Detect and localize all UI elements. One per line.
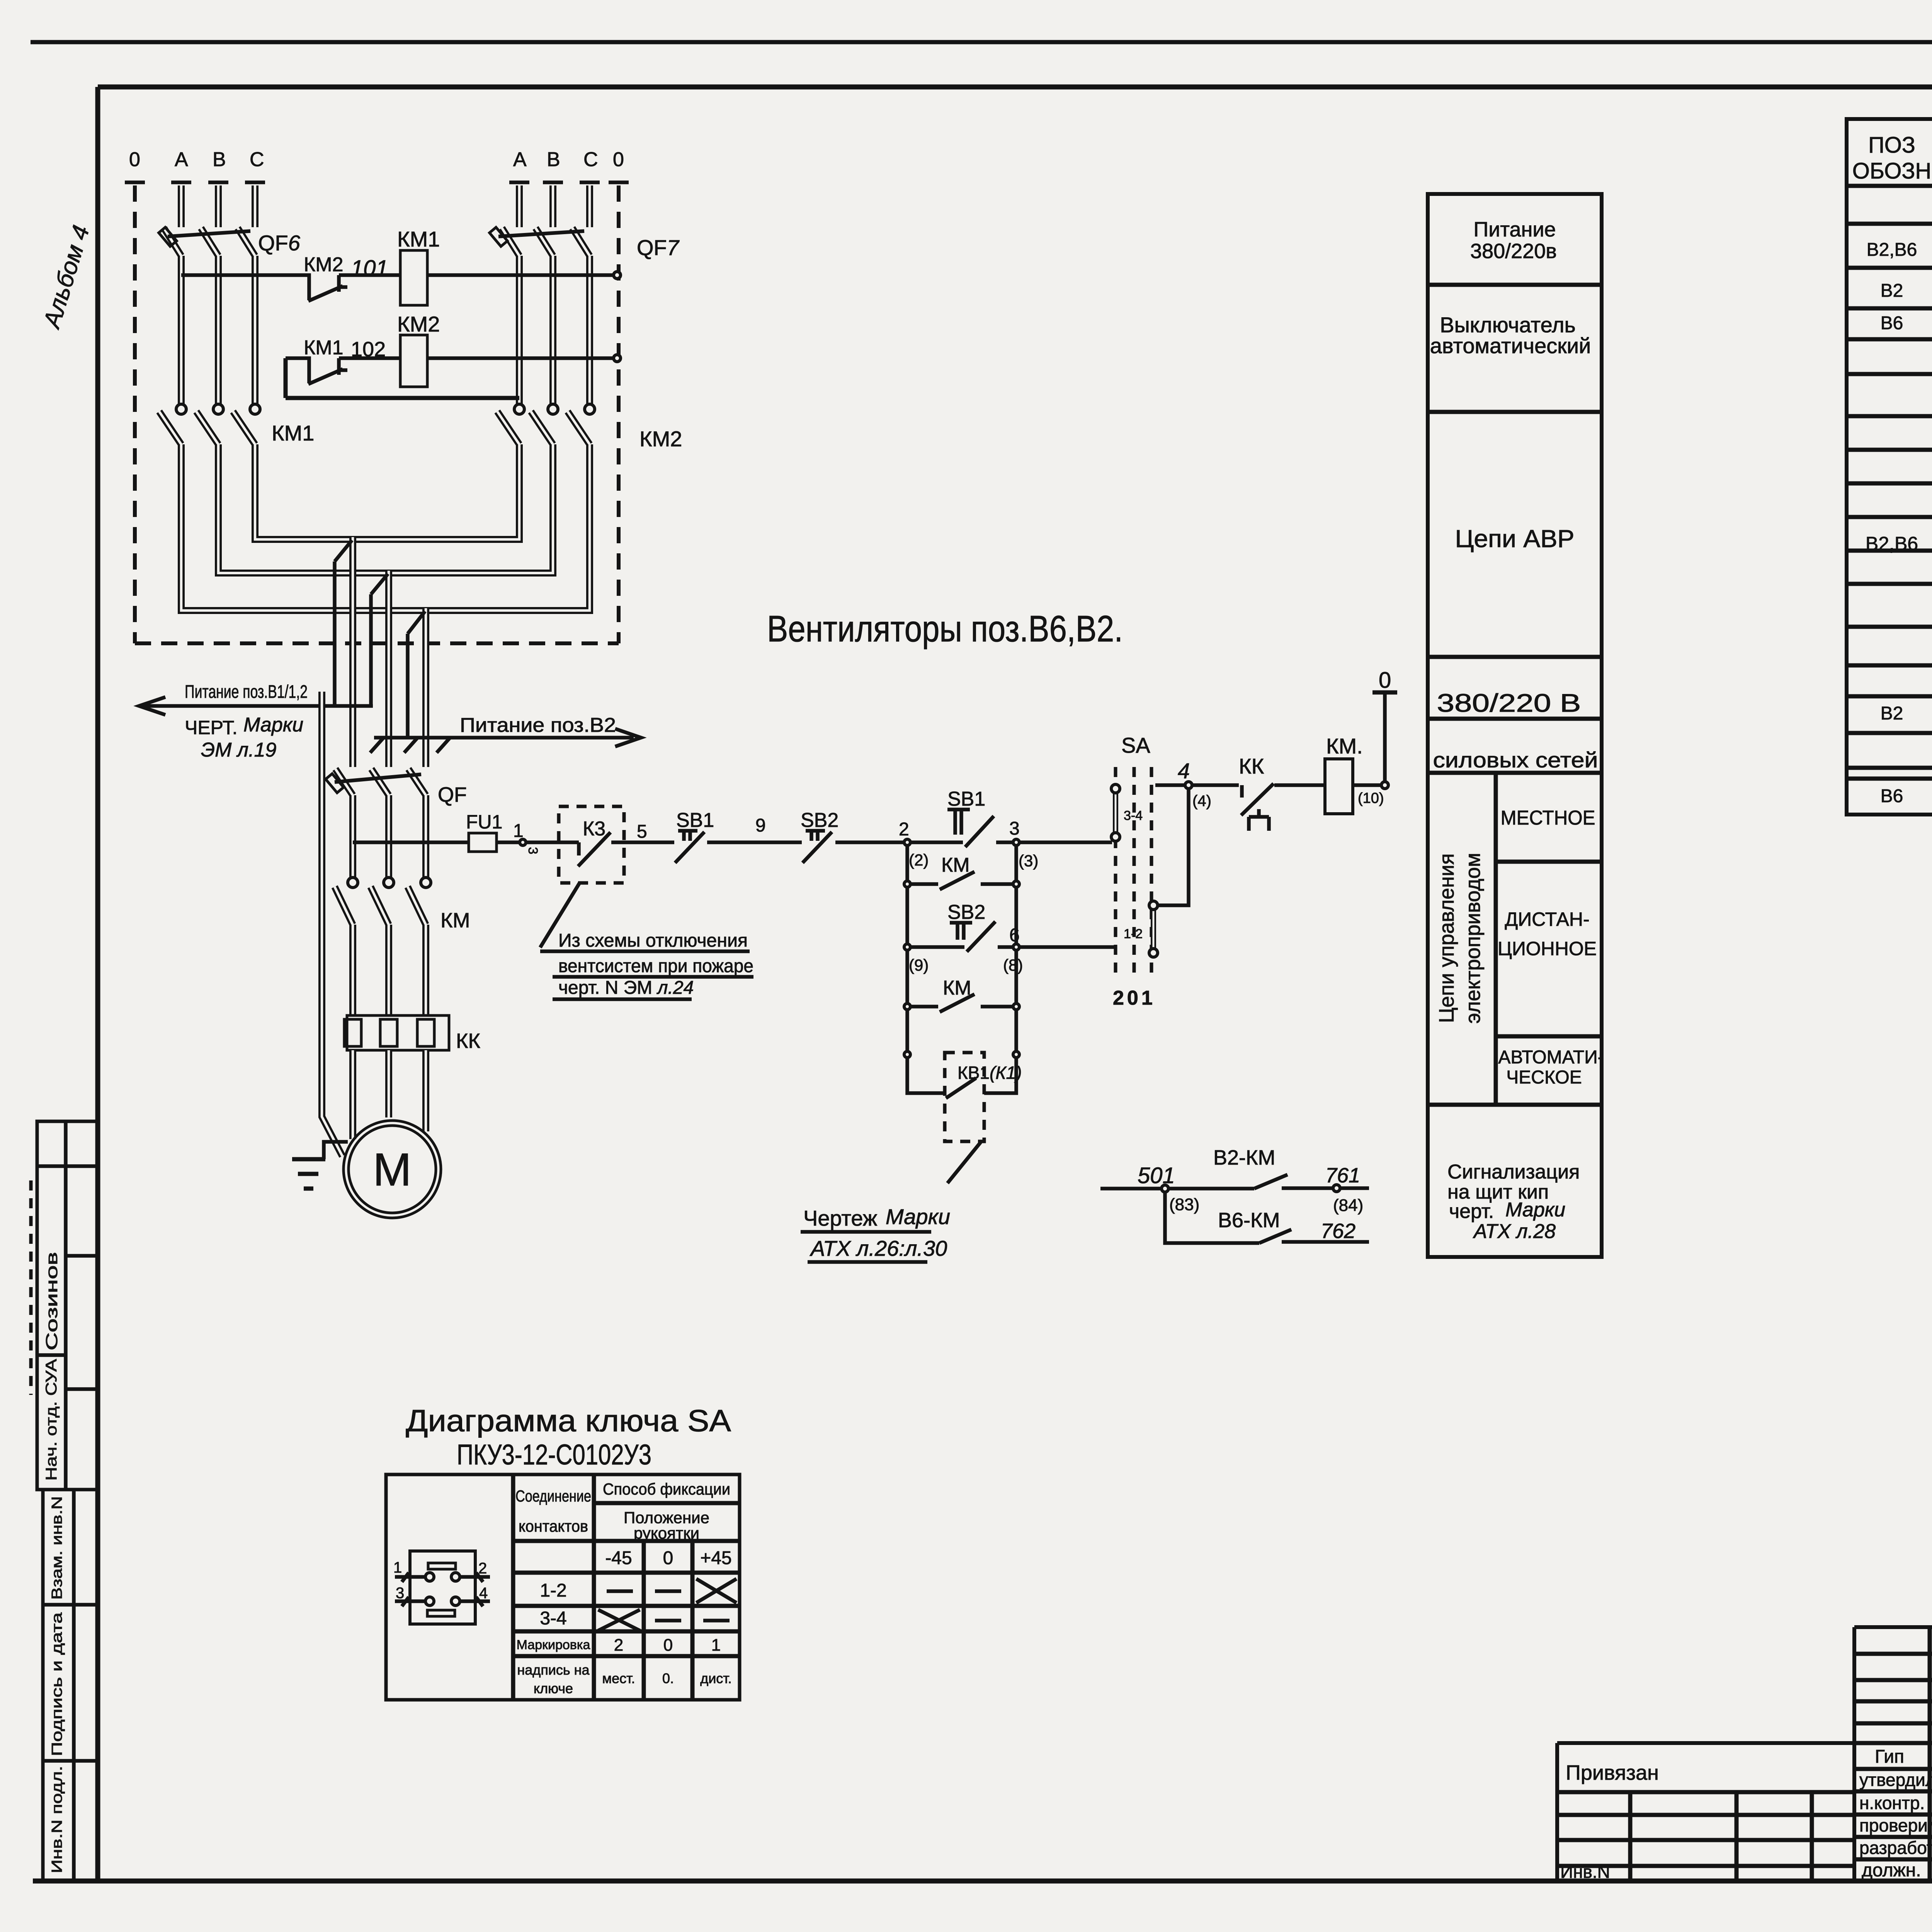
contactor KM1 fixed contacts: [176, 404, 186, 414]
tap slash to feeder B1: [335, 540, 352, 561]
breaker QF blades: [335, 769, 426, 795]
circuit breaker QF7 blades: [502, 228, 590, 256]
thermal relay KK outer box: [347, 1015, 449, 1050]
svg-text:Марки: Марки: [243, 714, 303, 736]
svg-text:4: 4: [1178, 759, 1190, 783]
contactor KM fixed contacts: [348, 878, 358, 888]
svg-text:QF6: QF6: [258, 231, 301, 255]
svg-text:рукоятки: рукоятки: [634, 1524, 699, 1542]
svg-text:3: 3: [526, 847, 540, 854]
signal row wire 501: [1100, 1187, 1162, 1190]
svg-text:761: 761: [1325, 1164, 1360, 1187]
QF7 pole wires down to KM2: [519, 256, 590, 404]
column row lines: [1428, 285, 1602, 1105]
key switch drawing cell: [410, 1551, 475, 1624]
svg-text:4: 4: [479, 1585, 488, 1602]
svg-text:201: 201: [1113, 987, 1156, 1009]
ground lead: [324, 1142, 348, 1159]
SA contact 3-4 bar: [1113, 793, 1118, 833]
tap wire to feeder B2: [406, 634, 410, 738]
wires KM to KK: [353, 925, 426, 1015]
svg-text:В: В: [213, 148, 226, 171]
second KM aux branch: [907, 950, 1016, 1003]
svg-text:0: 0: [663, 1548, 673, 1568]
svg-text:Питание: Питание: [1473, 218, 1556, 241]
svg-text:Привязан: Привязан: [1566, 1761, 1659, 1784]
K3 contact: [559, 832, 624, 866]
svg-text:(4): (4): [1192, 793, 1211, 810]
svg-text:М: М: [373, 1144, 412, 1196]
svg-text:разработ: разработ: [1859, 1838, 1932, 1858]
QF crossbar: [335, 774, 421, 782]
svg-text:3: 3: [396, 1585, 404, 1602]
node 6: [1013, 944, 1019, 950]
wire SA to node 4: [1155, 783, 1239, 787]
svg-text:МЕСТНОЕ: МЕСТНОЕ: [1501, 807, 1595, 829]
terminal bars A B C right: [519, 185, 590, 227]
svg-text:КМ: КМ: [943, 977, 971, 999]
feeder bus wire phase C down: [422, 608, 429, 767]
tap wire 2 to feeder B1: [369, 594, 373, 706]
wire node6 to SA: [1019, 945, 1116, 949]
node on QF7 zero bus row 101: [614, 272, 621, 279]
interlock row 102 wire: [286, 358, 614, 384]
svg-text:АВТОМАТИ-: АВТОМАТИ-: [1498, 1047, 1604, 1068]
svg-text:ПОЗ: ПОЗ: [1868, 133, 1915, 158]
SA contact 3-4 terminals: [1111, 784, 1120, 793]
SA dashed line 3: [1150, 767, 1153, 980]
wire FU1 to node 1: [497, 840, 520, 844]
svg-text:(2): (2): [909, 851, 929, 869]
node 1: [520, 839, 526, 845]
key contact 2: [451, 1573, 460, 1581]
svg-text:мест.: мест.: [602, 1670, 635, 1686]
merge bus run A: [181, 444, 590, 611]
svg-text:Созинов: Созинов: [43, 1252, 61, 1350]
svg-text:Подпись и дата: Подпись и дата: [49, 1612, 65, 1756]
svg-text:В2-КМ: В2-КМ: [1213, 1146, 1275, 1169]
wire node3 to SA: [1019, 840, 1112, 844]
svg-text:контактов: контактов: [519, 1517, 588, 1535]
BOM horizontal lines: [1847, 186, 1932, 779]
svg-text:Инв.N: Инв.N: [1560, 1862, 1610, 1882]
SA contact 1-2 bar: [1151, 909, 1156, 949]
node 4: [1185, 782, 1192, 789]
svg-text:762: 762: [1321, 1219, 1355, 1243]
circuit breaker QF6 blades: [164, 228, 255, 256]
svg-text:SA: SA: [1121, 733, 1150, 757]
contact B6-KM: [1259, 1230, 1291, 1243]
row 102 left feed stub: [286, 358, 519, 398]
node on wire 761: [1333, 1185, 1340, 1192]
svg-text:1-2: 1-2: [540, 1580, 566, 1601]
svg-text:2: 2: [614, 1636, 623, 1655]
svg-text:501: 501: [1138, 1163, 1175, 1188]
arrowhead poz.B2: [615, 729, 641, 747]
svg-text:(10): (10): [1358, 790, 1384, 806]
function column table frame: [1428, 194, 1602, 1257]
svg-text:А: А: [175, 148, 188, 171]
leader from KB1 box: [947, 1142, 981, 1183]
relay K3 dashed box: [559, 806, 624, 883]
feeder line poz.B2: [374, 736, 634, 740]
svg-text:В2: В2: [1881, 281, 1903, 301]
dashed enclosure bottom: [135, 641, 619, 645]
svg-text:2: 2: [478, 1560, 487, 1577]
SA diagram table frame: [386, 1475, 740, 1700]
contactor KM2 fixed contacts: [514, 404, 524, 414]
key contact 3: [425, 1597, 434, 1605]
feeder line poz.B1/1,2: [139, 704, 373, 708]
svg-text:1: 1: [711, 1636, 721, 1655]
svg-text:ПКУ3-12-С0102У3: ПКУ3-12-С0102У3: [457, 1439, 651, 1471]
svg-text:В2,В6: В2,В6: [1867, 240, 1917, 260]
fold mark dashes: [29, 1180, 33, 1395]
node 2b: [904, 944, 910, 950]
svg-text:ОБОЗН: ОБОЗН: [1852, 158, 1932, 184]
svg-text:КМ1: КМ1: [304, 337, 344, 359]
svg-text:В: В: [547, 148, 560, 171]
svg-text:102: 102: [351, 338, 386, 361]
svg-text:3-4: 3-4: [540, 1608, 566, 1629]
svg-text:Питание поз.В2: Питание поз.В2: [460, 714, 616, 736]
svg-text:вентсистем при пожаре: вентсистем при пожаре: [558, 956, 753, 976]
svg-text:автоматический: автоматический: [1430, 333, 1591, 358]
feeder bus wire phase B down: [385, 571, 392, 767]
left stamp upper block: [37, 1121, 98, 1490]
feeder bus wire phase A down: [349, 537, 356, 767]
svg-text:Сигнализация: Сигнализация: [1447, 1161, 1580, 1183]
svg-text:С: С: [583, 148, 598, 171]
svg-text:380/220в: 380/220в: [1470, 240, 1557, 263]
svg-text:Из схемы отключения: Из схемы отключения: [558, 930, 748, 951]
svg-text:проверил: проверил: [1859, 1815, 1932, 1835]
svg-text:Марки: Марки: [886, 1204, 950, 1229]
svg-text:(84): (84): [1333, 1196, 1363, 1215]
tap slash to feeder B2: [408, 611, 425, 634]
svg-text:1: 1: [393, 1559, 402, 1576]
QF7 crossbar: [498, 231, 584, 236]
terminal bars A B C left: [181, 185, 255, 227]
svg-text:Цепи АВР: Цепи АВР: [1455, 525, 1575, 553]
svg-text:ЭМ л.19: ЭМ л.19: [201, 739, 276, 761]
svg-text:ключе: ключе: [534, 1680, 573, 1696]
QF7 flag: [490, 227, 507, 246]
wire coil to zero: [1353, 783, 1382, 787]
key handle top bar: [428, 1563, 456, 1569]
KK release hook: [1249, 809, 1269, 831]
svg-text:Питание поз.В1/1,2: Питание поз.В1/1,2: [185, 681, 308, 702]
motor M circle: [344, 1121, 441, 1218]
contactor coil KM: [1325, 759, 1353, 814]
svg-text:(3): (3): [1019, 852, 1038, 870]
svg-text:КВ1(К1): КВ1(К1): [957, 1063, 1022, 1083]
svg-text:0: 0: [129, 148, 140, 171]
svg-text:черт. N ЭМ л.24: черт. N ЭМ л.24: [558, 978, 694, 998]
svg-text:(8): (8): [1003, 956, 1023, 974]
branch down to KB row: [907, 1010, 1016, 1051]
svg-text:0.: 0.: [662, 1670, 674, 1686]
svg-text:В2,В6: В2,В6: [1866, 533, 1918, 554]
junction slash B2 line c: [437, 738, 450, 753]
contactor coil KM1: [400, 250, 427, 305]
terminal caps: [125, 180, 629, 184]
left stamp lower block: [43, 1490, 98, 1881]
svg-text:5: 5: [637, 821, 647, 842]
signal branch wire down: [1165, 1192, 1259, 1243]
contactor KM blades: [335, 887, 426, 925]
zero terminal bar: [1372, 690, 1397, 695]
neutral wire to motor: [322, 692, 342, 1156]
svg-text:Инв.N подл.: Инв.N подл.: [49, 1766, 65, 1873]
arrowhead poz.B1: [139, 697, 165, 715]
svg-text:QF7: QF7: [637, 235, 680, 260]
svg-text:А: А: [513, 148, 527, 171]
tap slash 2 to feeder B1: [371, 574, 388, 594]
KM aux contact seal-in: [910, 872, 1013, 889]
svg-text:КМ2: КМ2: [304, 253, 344, 276]
dashed enclosure right side (0 bus): [617, 185, 621, 643]
QF6 flag: [159, 227, 177, 246]
svg-text:0: 0: [1379, 668, 1391, 693]
svg-text:КМ2: КМ2: [397, 312, 440, 336]
svg-text:Соединение: Соединение: [515, 1487, 591, 1505]
node 3a: [1013, 881, 1019, 887]
svg-text:КК: КК: [456, 1029, 480, 1053]
node 501: [1162, 1185, 1168, 1192]
svg-text:АТХ л.28: АТХ л.28: [1473, 1220, 1556, 1243]
svg-text:0: 0: [663, 1636, 673, 1655]
junction slash B2 line b: [404, 738, 417, 753]
KB1 contact branch wires: [907, 1058, 1016, 1093]
svg-text:0: 0: [613, 148, 624, 171]
svg-text:+45: +45: [700, 1548, 731, 1568]
svg-text:КМ: КМ: [440, 909, 470, 932]
svg-text:ЧЕСКОЕ: ЧЕСКОЕ: [1506, 1067, 1582, 1088]
QF flag: [326, 774, 344, 793]
leader from K3 box: [540, 883, 580, 947]
KK heater element B: [380, 1019, 397, 1046]
svg-text:надпись на: надпись на: [517, 1662, 590, 1678]
tap wire to feeder B1: [333, 561, 337, 706]
contactor KM2 blades: [497, 412, 590, 444]
svg-text:Вентиляторы поз.В6,В2.: Вентиляторы поз.В6,В2.: [767, 608, 1123, 650]
sheet top edge line: [31, 40, 1932, 44]
contact B2-KM: [1168, 1175, 1287, 1189]
svg-text:КК: КК: [1239, 754, 1264, 778]
svg-text:380/220 В: 380/220 В: [1437, 689, 1581, 717]
branch down to SB2 row: [907, 887, 1016, 944]
contactor coil KM2: [400, 335, 427, 387]
signature table verticals: [1852, 1627, 1856, 1881]
svg-text:3: 3: [1009, 818, 1020, 839]
merge bus run C (KM1 pole C to KM2 pole A): [255, 444, 519, 539]
key leads: [395, 1577, 490, 1601]
svg-text:Взам. инв.N: Взам. инв.N: [49, 1496, 65, 1600]
SA dashed line 1: [1114, 767, 1117, 980]
svg-text:КМ: КМ: [941, 854, 970, 876]
svg-text:SB1: SB1: [947, 788, 985, 810]
wire KK to KM coil: [1274, 783, 1325, 787]
svg-text:В6: В6: [1881, 786, 1903, 806]
QF pole wires down: [353, 795, 426, 878]
svg-text:дист.: дист.: [700, 1670, 732, 1686]
svg-text:утвердил: утвердил: [1859, 1770, 1932, 1790]
title block top line: [1854, 1625, 1932, 1629]
svg-text:Гип: Гип: [1875, 1747, 1904, 1767]
svg-text:3-4: 3-4: [1124, 808, 1143, 823]
node 2c: [904, 1003, 910, 1010]
dashed enclosure left side (0 bus): [133, 185, 137, 643]
key lead ticks: [402, 1573, 483, 1606]
svg-text:ЦИОННОЕ: ЦИОННОЕ: [1498, 938, 1597, 959]
svg-text:SB2: SB2: [947, 901, 985, 923]
SA diagram verticals: [513, 1475, 692, 1700]
node 6d: [1013, 1051, 1019, 1058]
svg-text:силовых сетей: силовых сетей: [1433, 748, 1598, 772]
svg-text:ДИСТАН-: ДИСТАН-: [1505, 908, 1589, 930]
svg-text:(83): (83): [1169, 1195, 1199, 1214]
contactor KM1 blades: [159, 412, 255, 444]
svg-text:2: 2: [899, 819, 909, 840]
node 2: [904, 839, 910, 845]
QF6 pole wires down to KM1: [181, 256, 255, 404]
svg-text:9: 9: [755, 815, 766, 836]
key contact 1: [425, 1573, 434, 1581]
svg-text:Чертеж: Чертеж: [803, 1206, 878, 1230]
zero riser wire: [1383, 694, 1387, 782]
drawing frame left: [95, 87, 100, 1881]
svg-text:Цепи управления: Цепи управления: [1435, 854, 1458, 1023]
svg-text:-45: -45: [605, 1548, 632, 1568]
node zero: [1381, 782, 1388, 789]
junction slash B2 line a: [370, 738, 383, 753]
svg-text:(9): (9): [909, 956, 929, 974]
BOM table outer frame: [1847, 119, 1932, 815]
wire node1 to K3: [526, 840, 559, 844]
key handle bottom bar: [427, 1610, 455, 1616]
KM aux contact 2: [910, 994, 1013, 1012]
node 2a: [904, 881, 910, 887]
column sub row lines: [1496, 773, 1602, 1105]
svg-text:QF: QF: [438, 783, 467, 806]
fuse FU1: [469, 833, 497, 852]
node on QF7 zero bus row 102: [614, 355, 621, 362]
control tap wire: [353, 840, 469, 844]
sensor contact KB1 dashed box: [945, 1053, 984, 1141]
wire 761: [1282, 1186, 1369, 1190]
svg-text:FU1: FU1: [466, 811, 502, 833]
svg-text:ЧЕРТ.: ЧЕРТ.: [185, 717, 238, 738]
svg-text:н.контр.: н.контр.: [1859, 1793, 1925, 1813]
svg-text:КМ1: КМ1: [272, 421, 314, 445]
thermal contact KK: [1241, 784, 1274, 815]
KK heater element A: [344, 1019, 361, 1046]
node 2d: [904, 1051, 910, 1058]
KK heater element C: [417, 1019, 434, 1046]
svg-text:черт.: черт.: [1449, 1200, 1494, 1223]
svg-text:В6: В6: [1881, 313, 1903, 333]
svg-text:Способ фиксации: Способ фиксации: [603, 1480, 730, 1498]
svg-text:SB1: SB1: [676, 809, 714, 832]
svg-text:КМ1: КМ1: [397, 227, 440, 251]
svg-text:электроприводом: электроприводом: [1461, 853, 1485, 1024]
wire node4 down to SA 1-2: [1158, 789, 1189, 905]
svg-text:С: С: [250, 148, 264, 171]
SA dashed line 2: [1133, 767, 1136, 980]
signature table rows: [1854, 1654, 1932, 1859]
seal-in branch wires: [907, 845, 1016, 881]
node 3: [1013, 839, 1019, 845]
svg-text:Нач. отд. СУА: Нач. отд. СУА: [43, 1359, 60, 1481]
merge bus run B: [218, 444, 553, 573]
svg-text:1-2: 1-2: [1124, 927, 1143, 941]
svg-text:К3: К3: [583, 818, 605, 840]
SA contact 1-2 terminals: [1149, 901, 1158, 910]
svg-text:должн.: должн.: [1862, 1860, 1921, 1881]
drawing frame top: [98, 85, 1932, 90]
KB1 blade: [946, 1078, 976, 1098]
svg-text:АТХ л.26:л.30: АТХ л.26:л.30: [810, 1236, 947, 1260]
svg-text:Марки: Марки: [1505, 1199, 1565, 1221]
svg-text:КМ2: КМ2: [639, 427, 682, 451]
svg-text:Диаграмма ключа SA: Диаграмма ключа SA: [406, 1403, 731, 1438]
drawing frame bottom: [33, 1879, 1932, 1884]
svg-text:6: 6: [1009, 925, 1020, 946]
wire 762: [1282, 1240, 1369, 1244]
svg-text:SB2: SB2: [801, 809, 838, 832]
Привязан box: [1557, 1743, 1854, 1880]
node 6c: [1013, 1003, 1019, 1010]
wires KK to motor: [353, 1050, 426, 1139]
SA diagram horizontals: [513, 1503, 740, 1656]
QF6 crossbar: [168, 231, 250, 236]
svg-text:Маркировка: Маркировка: [517, 1638, 590, 1652]
svg-text:В2: В2: [1881, 703, 1903, 724]
key contact 4: [451, 1597, 460, 1605]
wire K3 to SB1: [624, 840, 674, 844]
svg-text:КМ.: КМ.: [1326, 734, 1363, 758]
ground bars: [292, 1159, 325, 1189]
interlock row 101 wire: [181, 275, 614, 301]
svg-text:101: 101: [351, 256, 388, 281]
svg-text:В6-КМ: В6-КМ: [1218, 1209, 1280, 1232]
